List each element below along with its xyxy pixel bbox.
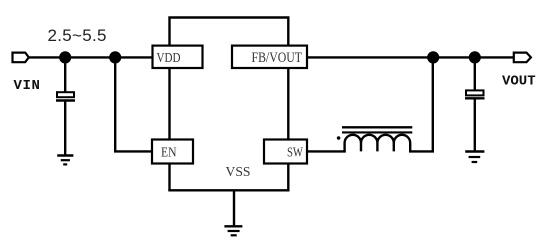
ground (output side) (465, 152, 484, 163)
wire junction D down to C2 (474, 57, 476, 90)
pin EN (152, 140, 193, 164)
svg-text:VIN: VIN (14, 78, 41, 94)
polarity dot of L1 (337, 136, 341, 140)
svg-text:VSS: VSS (226, 165, 251, 180)
wire SW to inductor (307, 150, 346, 152)
wire C2 to ground (474, 98, 476, 151)
capacitor C1 (input) (56, 92, 75, 100)
pin FB/VOUT (232, 46, 307, 68)
wire VIN to VDD pin (29, 56, 153, 58)
svg-text:VDD: VDD (157, 51, 181, 66)
ground (input side) (57, 156, 73, 165)
svg-text:2.5~5.5: 2.5~5.5 (48, 26, 107, 45)
wire FB/VOUT to VOUT port (307, 56, 514, 58)
wire VSS bottom rail (168, 189, 289, 191)
port VOUT (514, 53, 531, 63)
junction B (VIN / EN) (109, 51, 121, 63)
inductor L1 coil (345, 135, 411, 152)
capacitor C2 (output) (465, 90, 485, 98)
port VIN (13, 53, 29, 63)
inductor L1 core bars (342, 127, 412, 132)
wire VSS pin down to ground (233, 190, 235, 226)
wire junction B down and right to EN pin (115, 57, 153, 151)
wire IC right edge FB/VOUT to SW (287, 68, 289, 141)
svg-text:EN: EN (161, 146, 177, 161)
junction A (VIN / C1) (59, 51, 71, 63)
wire IC right edge SW to VSS rail (287, 163, 289, 190)
wire IC left edge VDD to EN (168, 68, 170, 141)
ground VSS (224, 226, 242, 235)
svg-text:FB/VOUT: FB/VOUT (252, 50, 303, 66)
svg-text:VOUT: VOUT (502, 74, 536, 90)
svg-text:SW: SW (287, 146, 304, 161)
junction C (inductor riser) (427, 51, 439, 63)
wire IC left edge EN to VSS rail (168, 163, 170, 190)
wire junction A down to C1 (64, 57, 66, 92)
pin SW (264, 140, 307, 164)
wire top loop VDD to FB/VOUT (170, 18, 289, 47)
wire C1 to ground (64, 101, 66, 156)
wire inductor to junction C (409, 57, 433, 151)
junction D (C2) (469, 51, 481, 63)
pin VDD (153, 46, 203, 68)
